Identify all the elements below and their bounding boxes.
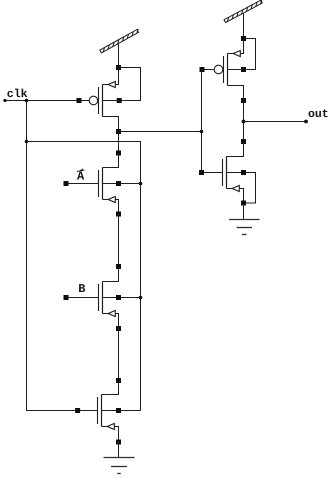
junction clk rail tap xyxy=(25,99,29,103)
pin square VDD node left xyxy=(116,65,121,70)
pin square source M6 xyxy=(241,201,246,206)
wire bulk loop M1 xyxy=(119,68,141,101)
wire out xyxy=(244,121,307,123)
pin square drain M4 xyxy=(116,378,121,383)
wire VDD stem left xyxy=(118,44,120,68)
wire M2 source to M3 drain xyxy=(118,214,120,267)
junction out node xyxy=(242,120,246,124)
junction bulk rail at B xyxy=(139,296,143,300)
pin square source M4 xyxy=(116,440,121,445)
wire VDD stem right xyxy=(243,14,245,39)
power VDD bar left xyxy=(100,29,140,53)
pin square bulk M2 xyxy=(116,181,121,186)
pin square gate M4 xyxy=(75,408,80,413)
pin square gate M3 xyxy=(64,295,69,300)
pin square bulk M4 xyxy=(116,408,121,413)
wire bulk loop M6 xyxy=(244,173,256,204)
ground right xyxy=(229,219,259,221)
wire bulk loop M5 xyxy=(244,39,256,70)
pin square bulk M5 xyxy=(241,67,246,72)
nmos M3 symbol xyxy=(68,267,140,329)
pin square source M3 xyxy=(116,326,121,331)
svg-text:clk: clk xyxy=(7,88,28,101)
nmos M6 symbol xyxy=(202,142,244,204)
wire M5 drain to out node xyxy=(243,101,245,122)
pin square drain M6 xyxy=(241,139,246,144)
pmos M1 symbol xyxy=(79,68,119,132)
wire inverter input xyxy=(201,70,203,173)
pin square gate M5 xyxy=(200,67,205,72)
junction bulk line tap xyxy=(25,140,29,144)
wire clk input xyxy=(5,100,79,102)
overbar on A xyxy=(77,170,84,171)
pin square drain M3 xyxy=(116,264,121,269)
wire dynamic node to inverter xyxy=(119,131,202,133)
nmos M4 symbol xyxy=(98,381,141,443)
pin square drain M2 xyxy=(116,151,121,156)
junction bulk rail at A xyxy=(139,182,143,186)
wire out node to M6 drain xyxy=(243,122,245,142)
wire M3 source to M4 drain xyxy=(118,329,120,381)
pin square gate M1 xyxy=(77,98,82,103)
pin square source M2 xyxy=(116,212,121,217)
pin square drain M1 dynamic node xyxy=(116,129,121,134)
power VDD bar right xyxy=(224,0,263,23)
pin square VDD node right xyxy=(241,36,246,41)
wire clk rail left xyxy=(27,101,98,411)
wire M6 source to ground xyxy=(243,203,245,220)
pmos M5 symbol xyxy=(202,39,244,101)
junction out wire end xyxy=(304,120,308,124)
ground left xyxy=(104,457,135,459)
accent tick on A xyxy=(80,169,83,171)
pin square gate M2 xyxy=(64,181,69,186)
junction clk wire end xyxy=(3,99,6,102)
wire bulk rail xyxy=(27,142,141,411)
wire M4 source to ground xyxy=(118,442,120,458)
nmos M2 symbol xyxy=(68,153,140,214)
pin square gate M6 xyxy=(199,170,204,175)
pin square bulk M3 xyxy=(116,295,121,300)
pin square bulk M1 xyxy=(117,98,122,103)
svg-text:out: out xyxy=(308,108,329,121)
pin square drain M5 xyxy=(241,98,246,103)
junction dynamic node at inverter input xyxy=(200,130,204,134)
wire dynamic node down to A xyxy=(118,132,120,154)
svg-text:B: B xyxy=(78,282,85,296)
pin square bulk M6 xyxy=(241,170,246,175)
